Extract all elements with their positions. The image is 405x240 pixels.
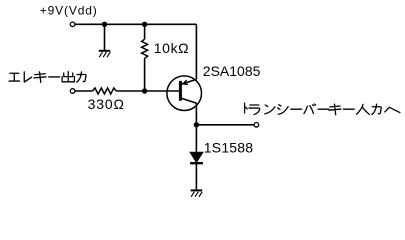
svg-text:10kΩ: 10kΩ	[154, 40, 189, 56]
svg-text:330Ω: 330Ω	[88, 96, 125, 112]
svg-text:2SA1085: 2SA1085	[203, 63, 261, 79]
svg-text:+9V(Vdd): +9V(Vdd)	[40, 4, 98, 18]
svg-text:1S1588: 1S1588	[204, 140, 253, 156]
